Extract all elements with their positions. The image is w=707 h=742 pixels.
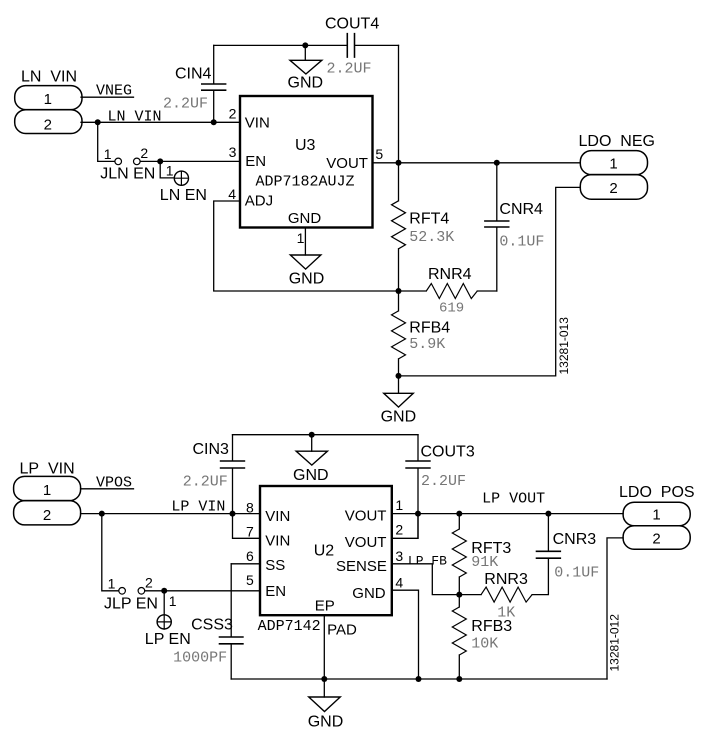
svg-text:2: 2 bbox=[44, 117, 52, 134]
svg-text:RFB3: RFB3 bbox=[471, 618, 512, 635]
svg-text:VIN: VIN bbox=[245, 115, 270, 132]
svg-text:10K: 10K bbox=[471, 635, 498, 652]
svg-text:1: 1 bbox=[395, 497, 403, 513]
svg-text:VPOS: VPOS bbox=[96, 475, 132, 492]
svg-text:2: 2 bbox=[140, 145, 148, 161]
svg-text:1: 1 bbox=[108, 576, 116, 592]
svg-text:VIN: VIN bbox=[265, 508, 290, 525]
svg-text:2.2UF: 2.2UF bbox=[327, 61, 372, 78]
svg-text:PAD: PAD bbox=[327, 622, 357, 639]
svg-text:GND: GND bbox=[289, 270, 325, 287]
svg-text:1: 1 bbox=[104, 146, 112, 162]
svg-text:COUT3: COUT3 bbox=[421, 444, 475, 461]
svg-text:1: 1 bbox=[44, 91, 52, 108]
svg-text:91K: 91K bbox=[471, 554, 498, 571]
svg-text:5.9K: 5.9K bbox=[409, 336, 445, 353]
svg-text:JLN EN: JLN EN bbox=[100, 165, 155, 182]
svg-text:2.2UF: 2.2UF bbox=[183, 473, 228, 490]
svg-text:7: 7 bbox=[246, 524, 254, 540]
svg-text:LP VOUT: LP VOUT bbox=[482, 491, 545, 508]
svg-text:U3: U3 bbox=[295, 137, 316, 154]
svg-text:LDO NEG: LDO NEG bbox=[579, 133, 655, 150]
svg-text:2: 2 bbox=[395, 522, 403, 538]
svg-text:EP: EP bbox=[315, 598, 335, 615]
svg-text:U2: U2 bbox=[314, 543, 335, 560]
svg-text:1000PF: 1000PF bbox=[173, 649, 227, 666]
svg-text:1: 1 bbox=[169, 593, 177, 609]
svg-text:JLP EN: JLP EN bbox=[104, 595, 158, 612]
svg-text:LN VIN: LN VIN bbox=[108, 109, 162, 126]
svg-text:RFB4: RFB4 bbox=[409, 320, 450, 337]
svg-text:5: 5 bbox=[375, 146, 383, 162]
svg-text:GND: GND bbox=[352, 585, 386, 602]
svg-text:2: 2 bbox=[229, 106, 237, 122]
svg-text:SS: SS bbox=[265, 557, 285, 574]
svg-text:8: 8 bbox=[246, 499, 254, 515]
svg-text:1: 1 bbox=[166, 163, 174, 179]
svg-text:3: 3 bbox=[229, 144, 237, 160]
svg-text:2.2UF: 2.2UF bbox=[163, 96, 208, 113]
svg-text:RNR3: RNR3 bbox=[484, 571, 528, 588]
svg-text:ADP7142: ADP7142 bbox=[258, 618, 321, 635]
svg-text:EN: EN bbox=[265, 583, 286, 600]
svg-text:VOUT: VOUT bbox=[345, 507, 387, 524]
svg-text:LP VIN: LP VIN bbox=[20, 461, 75, 478]
svg-text:GND: GND bbox=[308, 714, 344, 731]
svg-text:RNR4: RNR4 bbox=[428, 266, 472, 283]
svg-text:CIN4: CIN4 bbox=[175, 66, 212, 83]
svg-text:VOUT: VOUT bbox=[326, 155, 368, 172]
svg-text:5: 5 bbox=[246, 572, 254, 588]
svg-text:LN EN: LN EN bbox=[160, 187, 207, 204]
svg-text:2: 2 bbox=[652, 530, 660, 547]
svg-text:COUT4: COUT4 bbox=[325, 16, 379, 33]
svg-text:619: 619 bbox=[439, 301, 464, 317]
svg-text:3: 3 bbox=[395, 548, 403, 564]
svg-text:VIN: VIN bbox=[265, 532, 290, 549]
svg-text:VOUT: VOUT bbox=[345, 534, 387, 551]
svg-text:0.1UF: 0.1UF bbox=[554, 565, 599, 582]
svg-text:CSS3: CSS3 bbox=[191, 616, 233, 633]
svg-text:2: 2 bbox=[145, 575, 153, 591]
svg-text:SENSE: SENSE bbox=[336, 558, 387, 575]
svg-text:2: 2 bbox=[43, 507, 51, 524]
svg-text:CNR4: CNR4 bbox=[499, 201, 543, 218]
svg-text:4: 4 bbox=[228, 186, 236, 202]
svg-text:LP EN: LP EN bbox=[145, 631, 191, 648]
svg-text:2.2UF: 2.2UF bbox=[421, 473, 466, 490]
svg-text:2: 2 bbox=[609, 180, 617, 197]
svg-text:LP VIN: LP VIN bbox=[171, 499, 225, 516]
svg-text:LDO POS: LDO POS bbox=[619, 484, 695, 501]
svg-text:1: 1 bbox=[609, 155, 617, 172]
svg-text:1: 1 bbox=[43, 482, 51, 499]
svg-text:EN: EN bbox=[245, 153, 266, 170]
svg-text:4: 4 bbox=[395, 575, 403, 591]
svg-text:52.3K: 52.3K bbox=[409, 229, 454, 246]
svg-text:RFT4: RFT4 bbox=[409, 210, 449, 227]
svg-text:CNR3: CNR3 bbox=[553, 531, 597, 548]
svg-text:1: 1 bbox=[652, 507, 660, 524]
svg-text:13281-012: 13281-012 bbox=[608, 614, 622, 672]
svg-text:GND: GND bbox=[288, 75, 324, 92]
svg-text:LN VIN: LN VIN bbox=[21, 69, 77, 86]
svg-text:CIN3: CIN3 bbox=[193, 441, 230, 458]
svg-text:GND: GND bbox=[288, 210, 322, 227]
svg-text:VNEG: VNEG bbox=[96, 83, 132, 100]
svg-text:GND: GND bbox=[293, 467, 329, 484]
svg-text:GND: GND bbox=[381, 408, 417, 425]
svg-text:LP FB: LP FB bbox=[408, 553, 447, 568]
svg-text:1: 1 bbox=[297, 230, 305, 246]
svg-text:0.1UF: 0.1UF bbox=[499, 234, 544, 251]
svg-text:ADJ: ADJ bbox=[245, 192, 273, 209]
svg-text:13281-013: 13281-013 bbox=[557, 317, 571, 375]
svg-text:6: 6 bbox=[246, 548, 254, 564]
svg-text:ADP7182AUJZ: ADP7182AUJZ bbox=[256, 173, 355, 190]
